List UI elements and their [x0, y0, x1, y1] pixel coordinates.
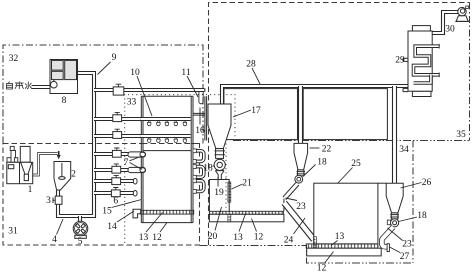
zone line 35 horizontal dash-dot-dot — [233, 140, 470, 142]
leader 12b — [160, 223, 167, 233]
conveyor plate 12 under bin 20 — [209, 214, 284, 222]
svg-text:21: 21 — [242, 179, 252, 189]
mixer unit 1 — [7, 146, 33, 183]
leader 18a — [213, 166, 215, 167]
leader 13b — [146, 213, 163, 233]
drying room rect A — [224, 89, 298, 140]
capped stub b6 — [133, 178, 137, 184]
valve V7 — [111, 188, 120, 197]
leader 26 — [401, 183, 422, 189]
leader 6 — [113, 196, 115, 199]
spray nozzles row2 — [148, 138, 187, 143]
svg-text:4: 4 — [52, 235, 57, 245]
wire riser duct to cyclone 22 — [298, 86, 303, 143]
zone bottom dash-dot-dot lines — [200, 246, 414, 264]
water treatment unit 8 — [50, 60, 78, 94]
holding bin 20 — [209, 180, 284, 212]
valve V1 on header — [113, 84, 124, 95]
loop flanges on wall — [193, 149, 196, 153]
leader 23b — [286, 198, 298, 201]
leader 12c — [325, 252, 334, 263]
wire tap-water pipe into unit 8 — [32, 85, 50, 89]
wire branch b7 capped — [94, 191, 134, 195]
leader 18b — [303, 165, 316, 177]
exhaust channel 16 walls — [205, 96, 207, 140]
zi 自 — [7, 82, 13, 90]
svg-text:29: 29 — [395, 56, 405, 66]
conveyor 13 center hatched belt — [141, 210, 194, 214]
dotted line right lower — [225, 144, 227, 209]
svg-text:20: 20 — [208, 232, 218, 242]
lance nozzle 7a — [128, 152, 146, 157]
wire blower suction pipe — [432, 12, 460, 33]
dashed zone line crossing tower — [142, 143, 200, 145]
chute 23 from cyclone 22 to bin 20 — [284, 184, 297, 199]
zone border 35 right dash-dot — [469, 3, 471, 141]
svg-text:32: 32 — [9, 54, 19, 64]
leader 22 — [310, 147, 320, 149]
leader 28 — [252, 68, 260, 84]
svg-text:13: 13 — [335, 232, 345, 242]
svg-text:34: 34 — [399, 145, 409, 155]
wire branch b4 to lance 7a — [94, 152, 131, 156]
chute 24 from bin 20 to chamber 25 — [284, 203, 314, 240]
valve V3 — [113, 129, 122, 138]
svg-text:12: 12 — [152, 233, 162, 243]
leader 16 — [199, 108, 201, 125]
svg-text:8: 8 — [62, 96, 67, 106]
svg-text:33: 33 — [127, 98, 137, 108]
leader 20 — [215, 207, 222, 231]
heat exchanger 29 — [403, 26, 439, 97]
conveyor 13 under bin 20 hatched belt — [209, 211, 283, 214]
svg-text:18: 18 — [417, 211, 427, 221]
feed arrowhead into tank 2 — [57, 155, 61, 159]
outer dashed box top-right — [209, 3, 470, 246]
drying chamber 25 — [314, 183, 378, 244]
svg-text:25: 25 — [351, 159, 361, 169]
wire branch b3 spray bar 2 — [94, 134, 191, 138]
svg-text:13: 13 — [233, 233, 243, 243]
svg-text:17: 17 — [251, 106, 261, 116]
discharge chute 14 — [133, 209, 141, 218]
wire branch b2 spray bar 1 — [94, 117, 191, 121]
wire spray bar 1 inside tower — [141, 117, 191, 121]
leader 9 — [98, 62, 111, 75]
zone box 31 dashed border — [3, 144, 200, 246]
svg-text:22: 22 — [322, 145, 332, 155]
wire tank2 neck pipe — [56, 190, 60, 197]
spray nozzles 10 row1 — [148, 121, 187, 126]
lai 来 — [15, 82, 24, 90]
svg-text:27: 27 — [400, 252, 410, 262]
leader 12a — [252, 219, 257, 232]
svg-text:6: 6 — [113, 197, 118, 207]
svg-text:23: 23 — [296, 202, 306, 212]
leader 11 — [187, 76, 198, 97]
drying room rect B — [303, 89, 387, 140]
heater U-loop 3 — [193, 181, 204, 192]
lance nozzle 7b — [128, 167, 146, 172]
svg-text:2: 2 — [71, 170, 76, 180]
wire branch b6 capped — [94, 179, 134, 183]
conveyor plate 12 under chamber 25 — [307, 248, 382, 256]
hatched wall strip 21 — [228, 182, 231, 202]
svg-text:5: 5 — [78, 237, 83, 247]
svg-text:9: 9 — [112, 53, 117, 63]
leader 4 — [57, 219, 64, 235]
heater U-loop 2 — [193, 167, 204, 178]
leader 24 — [294, 218, 306, 234]
leader 13a — [239, 213, 246, 232]
svg-text:12: 12 — [317, 264, 327, 274]
svg-text:12: 12 — [254, 233, 264, 243]
heater U-loop 1 on right wall — [193, 151, 204, 162]
pump 5 — [73, 221, 88, 238]
spray tower / drying chamber — [141, 96, 193, 222]
svg-text:1: 1 — [28, 185, 33, 195]
zone line 34 vertical dash-dot — [412, 141, 414, 264]
leader 25 — [338, 168, 353, 184]
hatched strip at chamber 25 inlet — [314, 237, 317, 248]
svg-text:28: 28 — [246, 60, 256, 70]
leader 7 double — [130, 156, 143, 170]
wire branch b5 to lance 7b — [94, 168, 131, 172]
svg-text:16: 16 — [195, 126, 205, 136]
valve V5 — [112, 164, 121, 173]
svg-text:18: 18 — [317, 158, 327, 168]
cyclone separator 17 — [208, 104, 231, 158]
wire riser duct to cyclone 26 — [392, 86, 397, 183]
svg-text:11: 11 — [181, 68, 190, 78]
stirred tank 2 — [54, 162, 71, 191]
wire main slurry header: unit8 to riser to bottom run to valve3 drop — [58, 73, 94, 216]
leader 18c — [399, 217, 418, 222]
leader 15 — [112, 200, 142, 208]
svg-text:18: 18 — [203, 164, 213, 174]
leader 23c — [388, 228, 403, 241]
rotary valve 18 under cyclone 22 — [295, 175, 303, 183]
wire spray bar 2 inside tower — [141, 134, 191, 138]
svg-text:19: 19 — [214, 188, 224, 198]
wire exhaust pipe 28 from cyclone 17 to heater 29 — [222, 86, 408, 104]
wire pump suction stub — [78, 216, 82, 221]
cyclone separator 22 — [294, 143, 308, 175]
zone box 32 dash-dot border — [3, 45, 203, 144]
outlet duct 27 — [382, 227, 393, 252]
leader 19 — [217, 177, 219, 187]
chute junction wall — [283, 199, 285, 212]
atomizer nozzle 11 hook — [199, 92, 203, 104]
capped stub b7 — [133, 191, 137, 197]
valve V4 — [112, 148, 121, 157]
label tap-water (自来水) hand-drawn strokes — [7, 82, 32, 90]
link line chamber 25 to cyclone 26 — [378, 182, 386, 184]
discharge funnel 19 into bin 20 — [215, 171, 224, 180]
leader 17 — [233, 110, 251, 117]
leader 27 — [390, 247, 401, 253]
cyclone separator 26 — [386, 183, 403, 219]
svg-text:31: 31 — [8, 227, 18, 237]
valve V2 — [113, 112, 122, 121]
svg-text:14: 14 — [107, 222, 117, 232]
svg-text:26: 26 — [422, 178, 432, 188]
leader 10 — [137, 76, 152, 116]
svg-text:30: 30 — [445, 25, 455, 35]
dotted line over bin 20 — [225, 178, 227, 208]
svg-text:13: 13 — [139, 233, 149, 243]
leader 21 — [232, 184, 243, 189]
rotary valve 18 under cyclone 26 — [387, 219, 398, 227]
blower 30 — [455, 6, 469, 21]
leader 13c — [331, 241, 338, 246]
svg-text:15: 15 — [102, 207, 112, 217]
svg-text:35: 35 — [456, 130, 466, 140]
dotted line left lower — [124, 144, 126, 246]
valve 3 — [53, 196, 62, 204]
svg-text:3: 3 — [46, 196, 51, 206]
wire branch b1 header to nozzle 11 — [94, 88, 204, 92]
leader 14 — [117, 211, 134, 222]
valve V6 — [112, 175, 121, 184]
svg-text:24: 24 — [284, 236, 294, 246]
svg-text:7: 7 — [124, 158, 129, 168]
dotted box 33 — [125, 95, 235, 141]
shui 水 — [25, 82, 32, 90]
rotary valve 18 under cyclone 17 — [214, 159, 225, 170]
svg-text:23: 23 — [402, 240, 412, 250]
svg-text:10: 10 — [130, 68, 140, 78]
wire feed pipe from mixer 1 to tank 2 — [33, 154, 58, 176]
conveyor 13 under chamber 25 hatched belt — [306, 244, 378, 248]
